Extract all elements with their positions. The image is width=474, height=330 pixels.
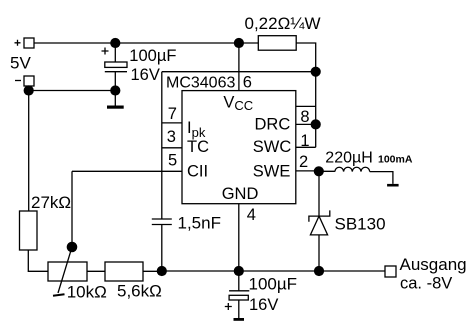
wire CII / pin5 bottom <box>72 170 182 172</box>
wire wiper to CII <box>71 171 73 247</box>
svg-text:100mA: 100mA <box>378 153 413 165</box>
svg-text:10kΩ: 10kΩ <box>67 283 107 302</box>
terminal minus input <box>15 76 34 86</box>
pin tick 3/5 <box>162 147 182 149</box>
wire 5k6 to node <box>143 270 162 272</box>
svg-text:6: 6 <box>243 74 252 92</box>
svg-text:100µF: 100µF <box>249 275 298 294</box>
node diode bottom <box>314 266 324 276</box>
svg-text:DRC: DRC <box>255 116 291 134</box>
svg-text:5,6kΩ: 5,6kΩ <box>117 282 162 301</box>
node minus junction <box>24 85 34 95</box>
svg-text:Ausgang: Ausgang <box>400 255 467 274</box>
pin tick 8 top <box>296 105 316 107</box>
svg-text:27kΩ: 27kΩ <box>31 193 71 212</box>
capacitor C3 100uF 16V <box>225 271 250 318</box>
resistor R3 5.6k <box>105 262 143 281</box>
ground after L1 <box>387 184 399 187</box>
svg-text:5: 5 <box>168 152 177 170</box>
ground under C3 <box>234 318 245 321</box>
svg-text:100µF: 100µF <box>129 47 176 65</box>
resistor R1 0.22 ohm <box>258 36 296 51</box>
terminal output <box>385 266 396 277</box>
capacitor C1 100uF 16V <box>102 43 128 91</box>
op-amp U1 MC34063 body <box>182 91 296 204</box>
wire pot to 5k6 <box>87 270 105 272</box>
svg-text:SB130: SB130 <box>335 215 386 234</box>
node C1 top <box>110 38 120 48</box>
svg-text:3: 3 <box>167 128 176 146</box>
potentiometer P1 10k <box>48 247 87 296</box>
svg-text:ca. -8V: ca. -8V <box>400 275 452 293</box>
capacitor C2 1.5nF <box>152 219 172 271</box>
terminal plus input <box>15 38 35 48</box>
svg-text:1: 1 <box>300 132 309 150</box>
svg-text:4: 4 <box>247 206 256 224</box>
wire SWE pin2 <box>296 170 319 172</box>
wire top +5V rail <box>34 42 258 44</box>
svg-text:7: 7 <box>168 105 177 123</box>
svg-text:CII: CII <box>187 162 208 180</box>
node Ipk right junction <box>311 67 321 77</box>
wire bottom rail <box>162 270 385 272</box>
wire R1 right to DRC/SWC <box>296 43 316 147</box>
svg-text:SWE: SWE <box>253 162 291 180</box>
node SWE junction <box>314 166 324 176</box>
svg-text:16V: 16V <box>249 296 278 314</box>
ground under C1 <box>107 91 124 109</box>
pin tick 8/1 <box>296 123 316 125</box>
wire left pin rail <box>161 72 163 219</box>
wire 27k to pot <box>28 250 48 271</box>
node bottom left <box>157 266 167 276</box>
node pin4 bottom <box>234 266 244 276</box>
node pin8/1 junction <box>311 119 321 129</box>
svg-text:220µH: 220µH <box>325 149 372 166</box>
svg-text:MC34063: MC34063 <box>166 75 235 92</box>
wire Ipk horizontal <box>162 71 316 73</box>
wire pin6 Vcc <box>238 43 240 91</box>
inductor L1 220uH <box>319 167 393 184</box>
svg-text:0,22Ω¼W: 0,22Ω¼W <box>245 14 321 33</box>
wire minus rail <box>29 90 116 92</box>
node wiper <box>67 242 78 253</box>
node C1 bottom <box>110 85 120 95</box>
pin tick 1 bottom <box>296 146 316 148</box>
node Vcc rail junction <box>234 38 244 48</box>
svg-text:8: 8 <box>300 108 309 126</box>
wire minus to 27k <box>28 91 30 212</box>
svg-text:TC: TC <box>187 138 209 156</box>
svg-text:1,5nF: 1,5nF <box>178 214 221 233</box>
diode D1 SB130 <box>309 171 330 271</box>
resistor R2 27k <box>20 211 38 250</box>
wire pin4 GND <box>238 204 240 271</box>
svg-text:16V: 16V <box>131 66 160 84</box>
svg-text:SWC: SWC <box>253 138 292 156</box>
svg-text:5V: 5V <box>10 54 31 73</box>
svg-text:GND: GND <box>222 185 259 203</box>
svg-text:2: 2 <box>299 153 308 171</box>
pin tick 7/3 <box>162 122 182 124</box>
